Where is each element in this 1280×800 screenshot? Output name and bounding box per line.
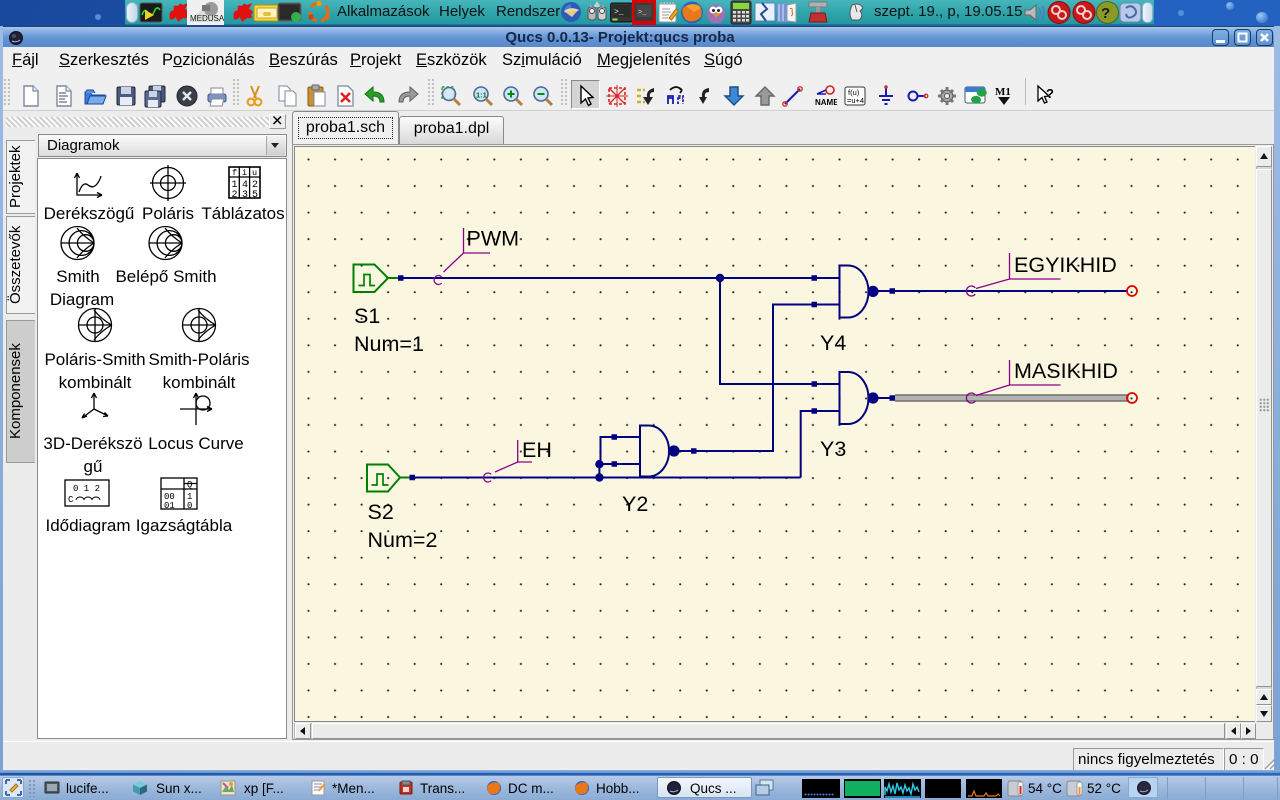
svg-text:>_: >_ — [638, 9, 647, 17]
Derekszogu icon — [75, 173, 103, 198]
undo — [363, 84, 387, 108]
wire — [781, 84, 805, 108]
wire junction to Y3 input A — [720, 278, 840, 384]
new text — [52, 84, 76, 108]
open node MASIKHID — [1127, 393, 1137, 403]
selected wire Y3 to port MASIKHID — [895, 394, 1129, 402]
gear — [935, 84, 959, 108]
svg-text:Y2: Y2 — [622, 492, 648, 516]
wire label EGYIKHID — [966, 253, 1060, 296]
window borders — [0, 26, 3, 773]
mirror — [664, 84, 688, 108]
open — [83, 84, 107, 108]
equation — [843, 84, 867, 108]
S1 port pin — [398, 275, 404, 281]
svg-text:Y4: Y4 — [820, 331, 846, 355]
vertical scrollbar — [1256, 146, 1272, 722]
svg-text:Q: Q — [187, 480, 192, 490]
svg-text:NAME: NAME — [815, 98, 837, 107]
junction Y2 inputs — [595, 460, 603, 468]
wire label MASIKHID — [966, 360, 1060, 403]
svg-text:Y3: Y3 — [820, 437, 846, 461]
delete — [334, 84, 358, 108]
nand gate Y2 — [640, 426, 695, 477]
svg-text:PWM: PWM — [467, 227, 520, 251]
svg-text:2: 2 — [232, 190, 238, 201]
nand gate Y3 — [840, 372, 896, 424]
new — [19, 84, 43, 108]
taskbar — [0, 775, 1280, 800]
Locus icon — [180, 393, 212, 425]
svg-text:EGYIKHID: EGYIKHID — [1014, 253, 1117, 277]
svg-text:?: ? — [1101, 5, 1110, 22]
3D axes icon — [82, 393, 108, 418]
Tablazatos icon — [229, 167, 260, 198]
close doc — [175, 84, 199, 108]
show result — [963, 84, 987, 108]
Belepo Smith icon — [149, 227, 182, 260]
wire label PWM — [434, 228, 490, 285]
svg-text:3: 3 — [242, 190, 248, 201]
digital source S2 — [367, 465, 410, 492]
Y4 input pins — [812, 275, 818, 281]
select (pressed) — [571, 80, 600, 109]
svg-text:Num=2: Num=2 — [368, 528, 438, 552]
Y3 input pins — [812, 381, 818, 387]
svg-text:>_: >_ — [614, 8, 624, 17]
svg-text:u: u — [252, 168, 257, 178]
paste — [305, 84, 329, 108]
svg-text:5: 5 — [252, 190, 258, 201]
marker M1 — [992, 84, 1016, 108]
desktop wallpaper bubbles — [150, 2, 159, 10]
zoom fit — [439, 84, 463, 108]
Polaris-Smith icon — [79, 309, 112, 342]
svg-text:C: C — [68, 495, 74, 505]
svg-text:EH: EH — [522, 438, 552, 462]
Y3 output pin — [890, 395, 896, 401]
Smith icon — [61, 227, 94, 260]
rotate — [693, 84, 717, 108]
svg-text:1:1: 1:1 — [476, 91, 487, 100]
S1 label — [354, 304, 424, 356]
svg-text:M1: M1 — [995, 86, 1011, 98]
save all — [143, 84, 167, 108]
wire Y2 tied inputs loop — [599, 437, 640, 478]
Y4 output pin — [890, 288, 896, 294]
Igazsagtabla icon — [161, 478, 197, 509]
tabs — [399, 116, 504, 144]
wire Y2 output to Y4 input B — [695, 305, 840, 452]
cut — [243, 84, 267, 108]
redo — [396, 84, 420, 108]
dock — [6, 117, 269, 127]
pop out — [753, 84, 777, 108]
push into — [722, 84, 746, 108]
svg-text:0 1 2: 0 1 2 — [73, 484, 100, 494]
svg-text:Num=1: Num=1 — [354, 332, 424, 356]
svg-text:i: i — [242, 168, 247, 178]
svg-text:S2: S2 — [368, 500, 394, 524]
S2 label — [368, 500, 438, 552]
Y2 input pins — [612, 434, 618, 440]
zoom 1:1 — [471, 84, 495, 108]
junction on S2 wire — [595, 473, 603, 481]
svg-text:MEDUSA: MEDUSA — [190, 14, 224, 23]
wire Y4 to port EGYIKHID — [895, 290, 1127, 292]
Idodiagram icon — [65, 480, 109, 506]
ground — [874, 84, 898, 108]
Polaris icon — [153, 168, 184, 199]
deactivate — [634, 84, 658, 108]
wire label EH — [484, 440, 532, 482]
save — [114, 84, 138, 108]
wire S2 run — [415, 477, 801, 479]
component marker — [605, 84, 629, 108]
zoom out — [531, 84, 555, 108]
copy — [276, 84, 300, 108]
node junction on PWM wire — [716, 274, 724, 282]
label — [813, 84, 837, 108]
top panel — [125, 0, 1154, 25]
horizontal scrollbar — [294, 723, 1256, 739]
status bar — [3, 741, 1277, 770]
print — [205, 84, 229, 108]
svg-text:S1: S1 — [354, 304, 380, 328]
wire S2 to Y3 input B — [801, 411, 840, 478]
wire S1 to Y4 input A — [400, 277, 840, 279]
port — [905, 84, 929, 108]
svg-text:=u+4: =u+4 — [847, 96, 864, 105]
zoom in — [501, 84, 525, 108]
svg-text:MASIKHID: MASIKHID — [1014, 359, 1118, 383]
S2 port pin — [410, 475, 416, 481]
svg-text:?: ? — [1046, 86, 1054, 101]
digital source S1 — [354, 265, 399, 293]
svg-text:01: 01 — [164, 501, 175, 511]
whats this — [1033, 84, 1057, 108]
svg-text:f: f — [232, 168, 237, 178]
Smith-Polaris icon — [183, 309, 216, 342]
svg-text:0: 0 — [187, 501, 192, 511]
Y2 output pin — [691, 448, 697, 454]
nand gate Y4 — [840, 266, 896, 318]
open node EGYIKHID — [1127, 286, 1137, 296]
